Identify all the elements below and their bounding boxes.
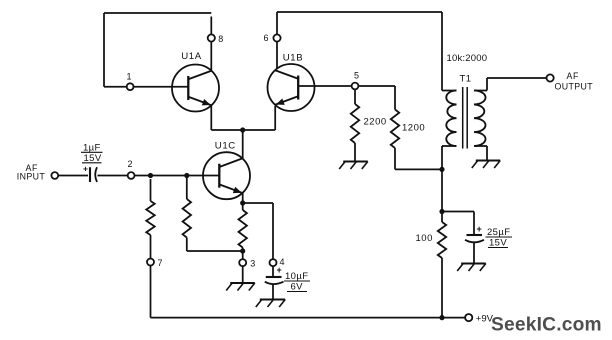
wire 25uF to ground (473, 243, 475, 263)
capacitor C1 1uF input (81, 143, 103, 183)
wire 1200 bottom to node (395, 148, 442, 169)
ground under 2200 (339, 162, 368, 170)
svg-text:8: 8 (218, 34, 223, 44)
svg-text:7: 7 (158, 258, 163, 268)
node bottom rail junction (439, 315, 444, 320)
node base junction B (184, 173, 189, 178)
node emitter resistor bottom junction (240, 248, 245, 253)
transistor U1B (268, 52, 315, 111)
svg-text:+: + (477, 224, 482, 234)
resistor 1200 (391, 110, 425, 149)
wire junction to pin3 (242, 248, 244, 260)
wire transformer primary bottom to 100 resistor (441, 146, 443, 222)
svg-text:U1C: U1C (215, 141, 236, 152)
wire pin5 to resistor 1200 (359, 86, 396, 110)
svg-text:6: 6 (264, 33, 269, 43)
terminal pin 6 (264, 33, 281, 43)
wire pin3 to ground (242, 266, 244, 282)
capacitor C2 10uF (265, 265, 310, 293)
terminal AF INPUT (51, 172, 58, 179)
terminal pin 2 (128, 159, 135, 179)
capacitor C3 25uF (465, 224, 512, 249)
resistor 2200 (351, 104, 387, 143)
svg-text:100: 100 (416, 233, 433, 244)
node transformer/1200 junction (439, 167, 444, 172)
wire bias resistor R2 branch (187, 176, 243, 252)
svg-text:10k:2000: 10k:2000 (447, 53, 488, 64)
wire pin6 vertical (276, 12, 278, 69)
ground under 10uF (256, 300, 285, 308)
terminal pin 7 (147, 258, 163, 268)
resistor R3 (U1C emitter) (239, 210, 247, 248)
wire pin1 to U1A base (104, 86, 188, 88)
svg-text:+: + (83, 163, 88, 173)
wire bottom rail (151, 317, 466, 319)
svg-text:25µF: 25µF (487, 227, 510, 238)
wire input to U1C base (58, 175, 219, 177)
wire pin5 to resistor 2200 (354, 90, 356, 105)
node U1C emitter junction (240, 200, 245, 205)
terminal pin 3 (239, 259, 255, 269)
terminal pin 4 (270, 257, 285, 267)
svg-text:T1: T1 (460, 74, 472, 85)
svg-text:10µF: 10µF (285, 271, 308, 282)
resistor R2 (base bias) (183, 199, 191, 238)
svg-text:1200: 1200 (402, 123, 425, 134)
svg-text:5: 5 (354, 71, 359, 81)
wire pin8 to U1A collector (210, 17, 212, 71)
wire 2200 to ground (354, 143, 356, 161)
ground under transformer secondary (472, 161, 500, 169)
terminal pin 1 (127, 71, 134, 90)
wire pin7 branch (150, 179, 152, 318)
label AF INPUT (17, 163, 46, 182)
wire transformer secondary to output (474, 78, 547, 91)
ground under 25uF (457, 264, 486, 272)
wire tap to 25uF capacitor (442, 212, 474, 236)
terminal pin 5 (352, 71, 359, 90)
wire top feedback rail (pin 8 to pin 1) (104, 13, 211, 87)
terminal pin 8 (208, 34, 224, 44)
wire emitter junction to pin4 (243, 203, 273, 259)
transformer T1 (442, 53, 487, 149)
svg-text:4: 4 (280, 257, 285, 267)
svg-text:6V: 6V (291, 282, 304, 293)
node emitter junction to U1C collector (240, 127, 245, 132)
wire emitter tie bar (211, 129, 275, 131)
svg-text:3: 3 (250, 259, 255, 269)
svg-text:15V: 15V (489, 238, 507, 249)
wire transformer secondary to ground (474, 146, 487, 160)
svg-text:SeekIC.com: SeekIC.com (491, 315, 602, 336)
node base junction A (148, 173, 153, 178)
svg-text:2: 2 (128, 159, 133, 169)
svg-text:OUTPUT: OUTPUT (555, 82, 594, 92)
wire U1B base to pin 5 (298, 85, 351, 87)
wire pin4 to 10uF capacitor (272, 266, 274, 276)
transistor U1C (203, 141, 250, 200)
resistor R1 (pin7 bias) (146, 201, 154, 235)
svg-text:1: 1 (127, 71, 132, 81)
svg-text:U1A: U1A (181, 51, 201, 62)
node 25uF tap junction (439, 209, 444, 214)
wire 100 resistor to bottom rail (441, 258, 443, 318)
wire 10uF to ground (272, 285, 274, 299)
svg-text:AF: AF (567, 71, 579, 81)
resistor 100 (416, 222, 447, 258)
svg-text:2200: 2200 (364, 117, 387, 128)
terminal AF OUTPUT (547, 71, 594, 92)
terminal +9V (465, 313, 494, 324)
wire U1C emitter down (242, 193, 244, 210)
wire top rail pin6 to transformer (277, 12, 442, 91)
svg-text:INPUT: INPUT (17, 172, 46, 182)
wire U1A emitter down (210, 105, 212, 130)
svg-text:15V: 15V (84, 153, 102, 164)
wire U1B emitter down (274, 106, 276, 130)
svg-text:U1B: U1B (283, 52, 303, 63)
transistor U1A (172, 51, 219, 112)
ground under pin3 (226, 283, 255, 291)
